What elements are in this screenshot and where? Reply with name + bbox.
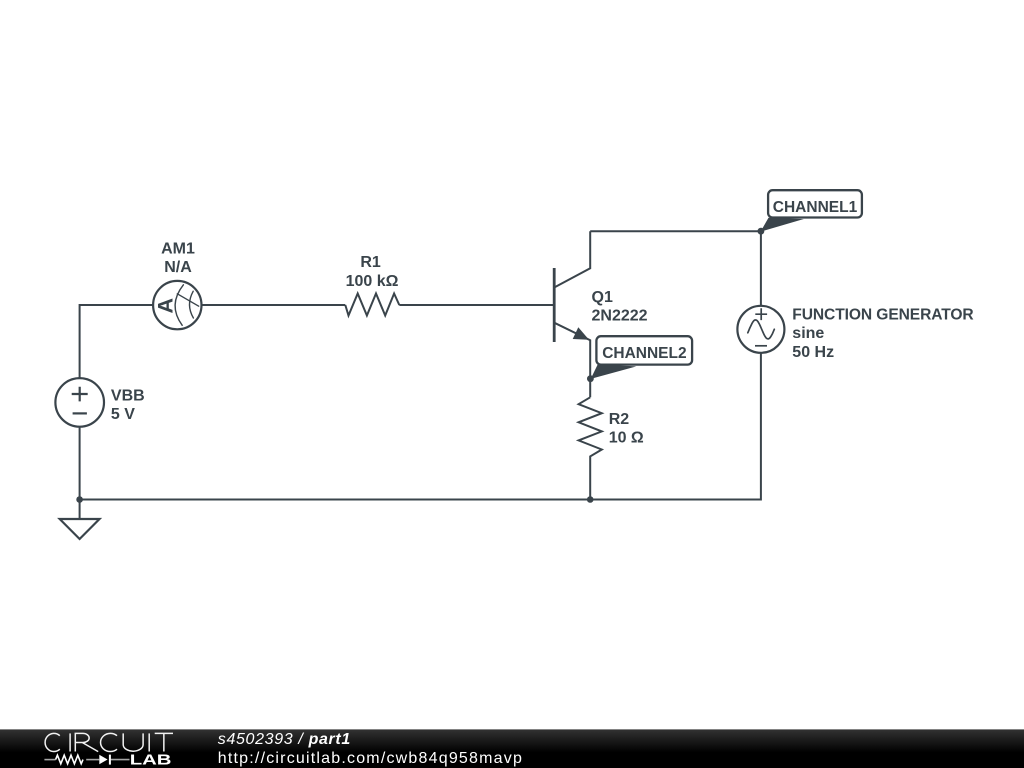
svg-text:http://circuitlab.com/cwb84q95: http://circuitlab.com/cwb84q958mavp xyxy=(218,750,523,767)
svg-text:AM1: AM1 xyxy=(161,240,195,257)
svg-text:A: A xyxy=(154,298,178,314)
svg-text:N/A: N/A xyxy=(164,259,192,276)
svg-text:FUNCTION GENERATOR: FUNCTION GENERATOR xyxy=(792,306,973,323)
svg-text:2N2222: 2N2222 xyxy=(592,308,648,325)
svg-text:s4502393 / part1: s4502393 / part1 xyxy=(218,731,351,748)
svg-text:R1: R1 xyxy=(360,254,381,271)
svg-text:50 Hz: 50 Hz xyxy=(792,344,834,361)
svg-text:LAB: LAB xyxy=(130,751,172,768)
svg-text:Q1: Q1 xyxy=(592,289,613,306)
svg-text:CHANNEL2: CHANNEL2 xyxy=(602,345,686,362)
svg-text:100 kΩ: 100 kΩ xyxy=(346,273,399,290)
svg-text:VBB: VBB xyxy=(111,387,145,404)
svg-text:5 V: 5 V xyxy=(111,406,135,423)
svg-text:10 Ω: 10 Ω xyxy=(609,430,644,447)
svg-text:sine: sine xyxy=(792,325,824,342)
svg-text:R2: R2 xyxy=(609,411,630,428)
svg-text:CHANNEL1: CHANNEL1 xyxy=(773,199,858,216)
